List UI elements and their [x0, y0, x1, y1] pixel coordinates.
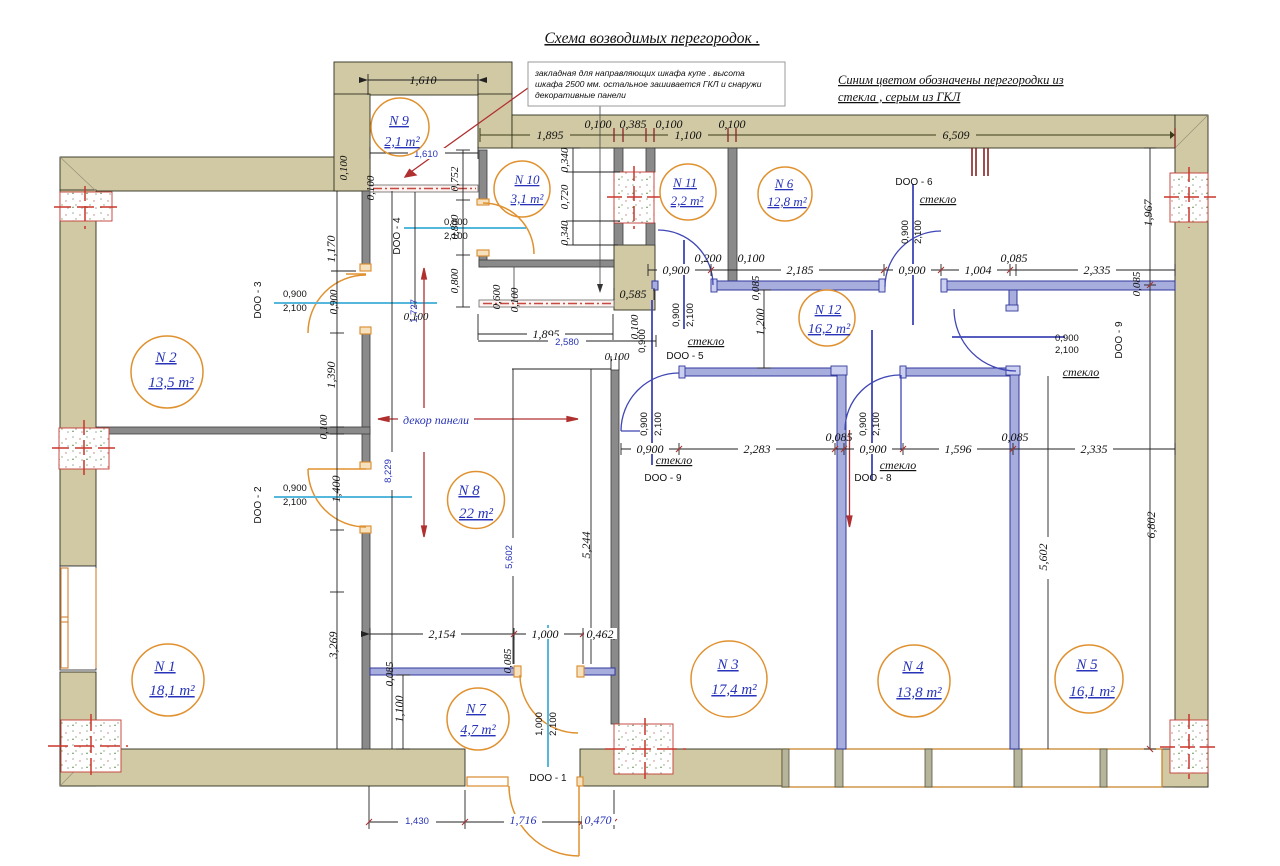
svg-text:2,580: 2,580 — [555, 337, 579, 348]
svg-text:1,967: 1,967 — [1141, 199, 1155, 227]
svg-text:стекло: стекло — [1063, 365, 1100, 379]
svg-text:1,004: 1,004 — [965, 263, 992, 277]
svg-text:стекло: стекло — [880, 458, 917, 472]
svg-text:0,100: 0,100 — [365, 175, 377, 200]
svg-text:12,8 m²: 12,8 m² — [767, 194, 807, 209]
svg-text:N 6: N 6 — [774, 176, 794, 191]
svg-text:0,900: 0,900 — [671, 303, 682, 327]
svg-text:16,2 m²: 16,2 m² — [808, 322, 851, 337]
svg-text:0,085: 0,085 — [750, 275, 762, 300]
svg-text:2,185: 2,185 — [787, 263, 814, 277]
svg-text:4,7 m²: 4,7 m² — [460, 723, 496, 738]
svg-text:стекло: стекло — [688, 334, 725, 348]
svg-text:8,229: 8,229 — [383, 459, 394, 483]
svg-text:0,900: 0,900 — [663, 263, 690, 277]
svg-text:1,390: 1,390 — [324, 362, 338, 389]
svg-text:2,335: 2,335 — [1084, 263, 1111, 277]
svg-text:0,900: 0,900 — [639, 412, 650, 436]
svg-text:0,085: 0,085 — [1131, 271, 1143, 296]
svg-text:0,900: 0,900 — [283, 483, 307, 494]
svg-text:13,5 m²: 13,5 m² — [148, 375, 194, 391]
svg-text:стекло: стекло — [920, 192, 957, 206]
svg-text:6,802: 6,802 — [1144, 512, 1158, 539]
svg-text:0,100: 0,100 — [605, 351, 630, 363]
svg-text:N 8: N 8 — [457, 483, 480, 499]
svg-text:0,585: 0,585 — [620, 287, 647, 301]
svg-text:DOO - 6: DOO - 6 — [895, 177, 933, 188]
svg-text:0,462: 0,462 — [587, 627, 614, 641]
svg-text:2,100: 2,100 — [685, 303, 696, 327]
svg-text:5,244: 5,244 — [579, 532, 593, 559]
svg-text:0,085: 0,085 — [1002, 430, 1029, 444]
svg-text:стекла , серым из ГКЛ: стекла , серым из ГКЛ — [838, 90, 962, 104]
svg-text:1,895: 1,895 — [537, 128, 564, 142]
svg-text:2,100: 2,100 — [548, 712, 559, 736]
svg-text:Синим цветом обозначены перего: Синим цветом обозначены перегородки из — [838, 73, 1064, 87]
svg-text:17,4 m²: 17,4 m² — [711, 682, 757, 698]
svg-text:2,335: 2,335 — [1081, 442, 1108, 456]
svg-text:0,100: 0,100 — [318, 414, 330, 439]
svg-text:0,900: 0,900 — [860, 442, 887, 456]
svg-text:N 9: N 9 — [388, 114, 409, 129]
svg-text:0,085: 0,085 — [1001, 251, 1028, 265]
svg-text:0,100: 0,100 — [338, 155, 350, 180]
svg-text:стекло: стекло — [656, 453, 693, 467]
svg-text:N 10: N 10 — [514, 172, 540, 187]
svg-text:декор панели: декор панели — [403, 413, 469, 427]
svg-text:0,100: 0,100 — [738, 251, 765, 265]
svg-text:0,900: 0,900 — [899, 263, 926, 277]
svg-text:2,1 m²: 2,1 m² — [384, 135, 420, 150]
svg-text:DOO - 3: DOO - 3 — [253, 281, 264, 319]
svg-text:5,602: 5,602 — [504, 545, 515, 569]
svg-text:шкафа 2500 мм. остальное зашив: шкафа 2500 мм. остальное зашивается ГКЛ … — [535, 79, 762, 89]
svg-text:1,400: 1,400 — [329, 476, 343, 503]
svg-text:13,8 m²: 13,8 m² — [896, 685, 942, 701]
svg-text:0,900: 0,900 — [900, 220, 911, 244]
svg-text:3,269: 3,269 — [326, 632, 340, 660]
svg-text:DOO - 8: DOO - 8 — [854, 473, 892, 484]
svg-text:1,100: 1,100 — [392, 696, 406, 723]
svg-text:0,752: 0,752 — [449, 166, 461, 191]
svg-text:1,596: 1,596 — [945, 442, 972, 456]
svg-text:0,085: 0,085 — [384, 661, 396, 686]
svg-text:Схема возводимых перегородок .: Схема возводимых перегородок . — [544, 30, 759, 47]
svg-text:N 7: N 7 — [465, 702, 487, 717]
svg-text:0,900: 0,900 — [328, 289, 340, 314]
svg-text:2,283: 2,283 — [744, 442, 771, 456]
svg-text:DOO - 9: DOO - 9 — [1114, 321, 1125, 359]
svg-text:2,100: 2,100 — [653, 412, 664, 436]
svg-text:N 11: N 11 — [672, 175, 697, 190]
svg-text:0,385: 0,385 — [620, 117, 647, 131]
svg-text:18,1 m²: 18,1 m² — [149, 683, 195, 699]
svg-text:DOO - 9: DOO - 9 — [644, 473, 682, 484]
svg-text:1,000: 1,000 — [532, 627, 559, 641]
svg-text:2,2 m²: 2,2 m² — [671, 193, 705, 208]
svg-text:N 12: N 12 — [814, 303, 842, 318]
svg-text:декоративные панели: декоративные панели — [535, 90, 626, 100]
svg-text:1,430: 1,430 — [405, 816, 429, 827]
svg-text:0,900: 0,900 — [283, 289, 307, 300]
svg-text:2,100: 2,100 — [871, 412, 882, 436]
svg-text:0,900: 0,900 — [1055, 333, 1079, 344]
svg-text:5,602: 5,602 — [1036, 544, 1050, 571]
svg-text:2,100: 2,100 — [1055, 345, 1079, 356]
svg-text:16,1 m²: 16,1 m² — [1069, 684, 1115, 700]
svg-text:2,100: 2,100 — [913, 220, 924, 244]
svg-text:0,340: 0,340 — [559, 147, 571, 172]
svg-text:3,1 m²: 3,1 m² — [510, 191, 545, 206]
svg-text:0,470: 0,470 — [585, 813, 612, 827]
svg-text:N 2: N 2 — [154, 350, 177, 366]
svg-text:6,509: 6,509 — [943, 128, 970, 142]
svg-text:1,200: 1,200 — [753, 309, 767, 336]
svg-text:0,800: 0,800 — [449, 268, 461, 293]
svg-text:N 3: N 3 — [716, 657, 738, 673]
svg-text:2,100: 2,100 — [283, 303, 307, 314]
svg-text:0,900: 0,900 — [637, 329, 648, 353]
svg-text:DOO - 5: DOO - 5 — [666, 351, 704, 362]
svg-text:0,900: 0,900 — [858, 412, 869, 436]
svg-text:DOO - 4: DOO - 4 — [392, 217, 403, 255]
svg-text:2,100: 2,100 — [283, 497, 307, 508]
svg-text:0,100: 0,100 — [404, 311, 429, 323]
svg-text:0,800: 0,800 — [444, 217, 468, 228]
svg-text:закладная для направляющих шка: закладная для направляющих шкафа купе . … — [534, 68, 745, 78]
svg-text:2,154: 2,154 — [429, 627, 456, 641]
svg-text:N 1: N 1 — [153, 659, 175, 675]
svg-text:1,716: 1,716 — [510, 813, 537, 827]
svg-text:0,200: 0,200 — [695, 251, 722, 265]
svg-text:DOO - 2: DOO - 2 — [253, 486, 264, 524]
svg-text:0,720: 0,720 — [559, 184, 571, 209]
svg-text:1,170: 1,170 — [324, 236, 338, 263]
svg-text:N 4: N 4 — [901, 659, 924, 675]
svg-text:1,000: 1,000 — [534, 712, 545, 736]
svg-text:22 m²: 22 m² — [459, 506, 494, 522]
svg-text:N 5: N 5 — [1075, 657, 1098, 673]
svg-text:0,100: 0,100 — [656, 117, 683, 131]
svg-text:0,600: 0,600 — [491, 284, 503, 309]
svg-text:1,610: 1,610 — [410, 73, 437, 87]
svg-text:2,100: 2,100 — [444, 231, 468, 242]
svg-text:0,085: 0,085 — [502, 648, 514, 673]
svg-text:0,100: 0,100 — [509, 287, 521, 312]
svg-text:DOO - 1: DOO - 1 — [529, 773, 567, 784]
svg-text:0,100: 0,100 — [719, 117, 746, 131]
svg-text:0,100: 0,100 — [585, 117, 612, 131]
svg-text:0,085: 0,085 — [826, 430, 853, 444]
svg-text:0,340: 0,340 — [559, 220, 571, 245]
